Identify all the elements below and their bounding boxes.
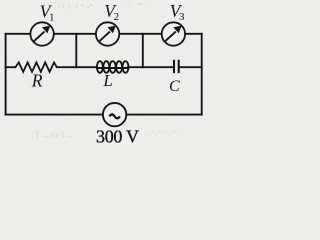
wire bottom (through source) (6, 114, 202, 116)
wire under inductor (97, 67, 128, 69)
svg-text:−′′›’′ ’›′’·: −′′›’′ ’›′’· (146, 129, 179, 139)
svg-text:’Ÿ→ɛtɛ l→: ’Ÿ→ɛtɛ l→ (31, 130, 73, 140)
svg-text:2: 2 (114, 11, 120, 23)
wire C to right edge (180, 66, 202, 68)
wire L to C (128, 66, 173, 68)
svg-text:300 V: 300 V (96, 126, 139, 146)
svg-text:, i (·) ·1 • .,•: , i (·) ·1 • .,• (54, 1, 93, 10)
svg-text:1: 1 (49, 11, 55, 23)
svg-text:·| · •• ·.: ·| · •• ·. (126, 0, 149, 9)
node B (junction L-C) (142, 34, 144, 67)
AC source (103, 103, 126, 126)
wire top (through voltmeters) (6, 33, 202, 35)
wire left edge (5, 34, 7, 115)
resistor R (15, 62, 57, 72)
wire right edge (201, 34, 203, 115)
voltmeter V1 (30, 22, 53, 45)
wire middle row left lead (6, 66, 16, 68)
voltmeter V2 (96, 22, 119, 45)
voltmeter V3 (162, 22, 185, 45)
capacitor C plates (174, 60, 179, 73)
node A (junction R-L) (75, 34, 77, 67)
svg-text:3: 3 (179, 11, 185, 23)
inductor L (97, 61, 129, 73)
svg-text:L: L (102, 71, 112, 90)
svg-text:C: C (169, 78, 180, 95)
wire R to L (57, 66, 97, 68)
svg-text:R: R (31, 71, 43, 91)
